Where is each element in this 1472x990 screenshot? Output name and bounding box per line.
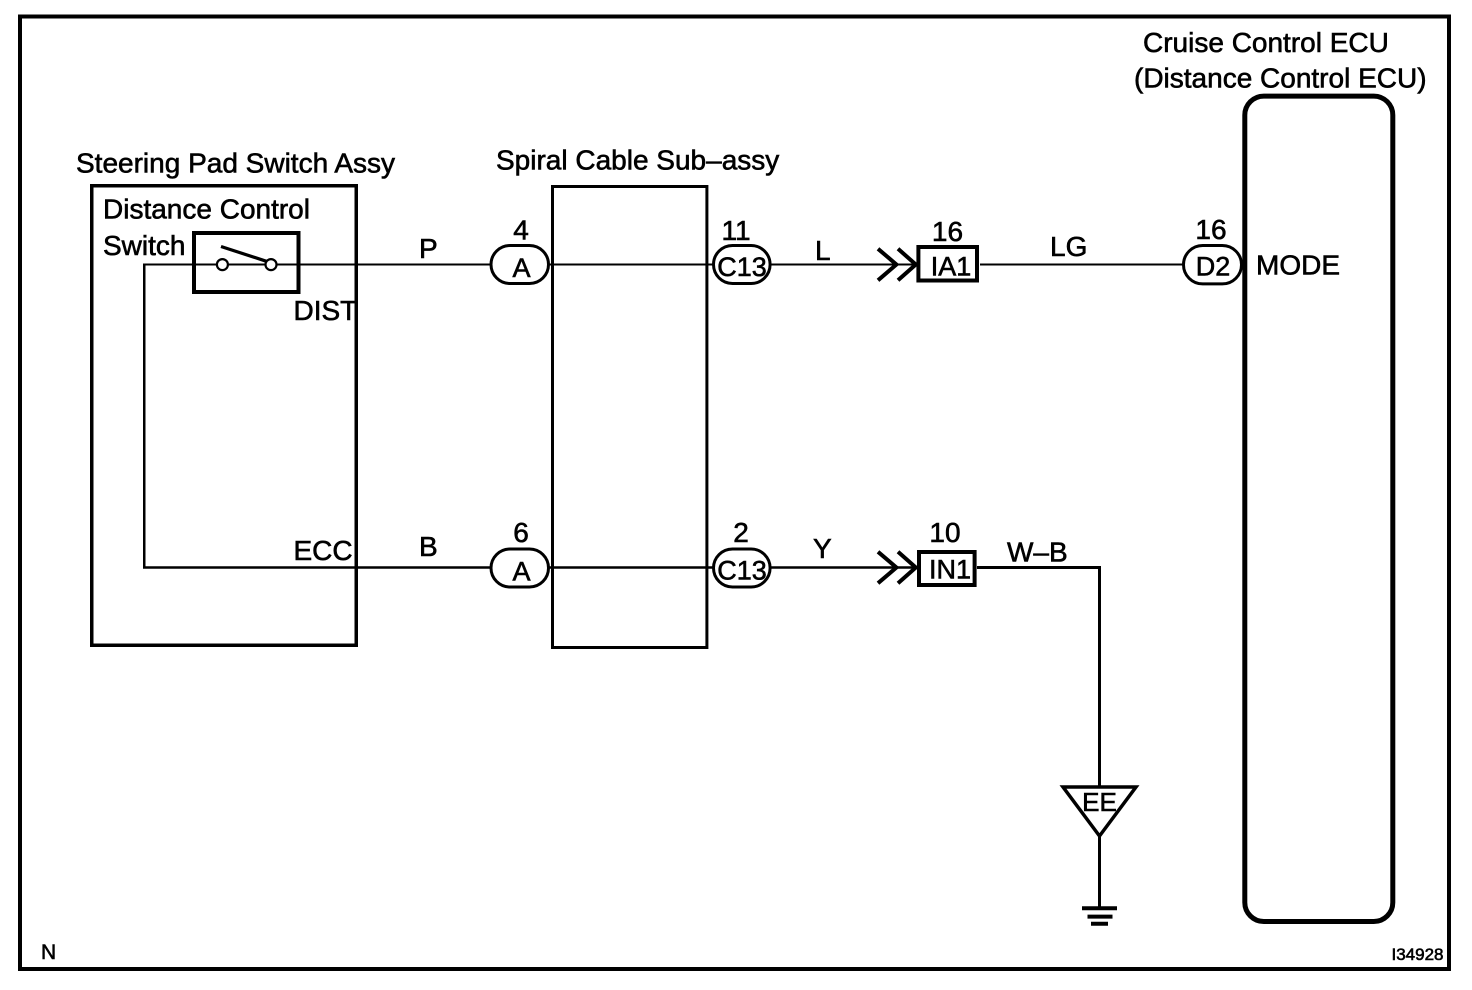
svg-text:C13: C13: [717, 252, 767, 282]
svg-text:A: A: [512, 557, 530, 587]
junction block IN1: [919, 552, 975, 585]
svg-text:N: N: [41, 941, 56, 964]
svg-text:Spiral Cable Sub–assy: Spiral Cable Sub–assy: [496, 145, 779, 176]
svg-text:Distance Control: Distance Control: [103, 194, 310, 225]
svg-text:EE: EE: [1082, 787, 1117, 817]
svg-text:(Distance Control ECU): (Distance Control ECU): [1134, 63, 1427, 94]
Distance Control Switch box: [194, 233, 299, 292]
svg-text:IN1: IN1: [929, 555, 971, 585]
junction block IA1: [918, 247, 977, 281]
svg-text:B: B: [419, 531, 438, 562]
wire P upper horizontal: [144, 264, 920, 266]
ground symbol bar 1: [1082, 906, 1117, 910]
svg-text:4: 4: [513, 215, 529, 246]
svg-text:10: 10: [929, 517, 960, 548]
wire ECC branch vertical and lower horizontal: [144, 264, 919, 568]
chevron arrows lower wire: [878, 552, 896, 583]
Steering Pad Switch Assy box: [92, 186, 357, 646]
switch lever: [221, 247, 267, 262]
svg-text:Cruise Control ECU: Cruise Control ECU: [1143, 27, 1389, 58]
svg-text:LG: LG: [1050, 231, 1087, 262]
svg-text:ECC: ECC: [294, 535, 353, 566]
chevron arrows upper wire: [878, 249, 896, 280]
switch contact left: [217, 259, 228, 270]
wire from EE triangle apex to ground: [1098, 837, 1101, 907]
ground point EE triangle: [1063, 787, 1136, 836]
connector A pin 4 oval: [491, 246, 549, 284]
svg-text:16: 16: [1195, 214, 1226, 245]
svg-text:A: A: [512, 253, 530, 283]
svg-text:I34928: I34928: [1392, 945, 1444, 964]
svg-text:DIST: DIST: [294, 295, 358, 326]
svg-text:C13: C13: [717, 556, 767, 586]
wire W-B from IN1 down to EE triangle: [977, 568, 1100, 787]
svg-text:MODE: MODE: [1256, 250, 1340, 281]
ground symbol bar 2: [1088, 915, 1113, 919]
wire LG from IA1 to D2: [980, 264, 1184, 266]
connector C13 pin 2 oval: [714, 549, 771, 587]
connector D2 pin 16 oval: [1184, 246, 1242, 284]
switch contact right: [266, 259, 277, 270]
Spiral Cable Sub-assy box: [553, 187, 707, 648]
svg-text:2: 2: [733, 517, 749, 548]
svg-text:D2: D2: [1196, 252, 1231, 282]
ground symbol bar 3: [1091, 922, 1108, 926]
svg-text:11: 11: [721, 215, 750, 246]
svg-text:P: P: [419, 233, 438, 264]
svg-text:6: 6: [513, 517, 529, 548]
Cruise Control ECU box: [1245, 96, 1393, 921]
connector A pin 6 oval: [491, 549, 549, 587]
svg-text:W–B: W–B: [1007, 537, 1068, 568]
connector C13 pin 11 oval: [714, 246, 771, 284]
svg-text:IA1: IA1: [931, 252, 972, 282]
svg-text:Steering Pad Switch Assy: Steering Pad Switch Assy: [76, 148, 395, 179]
svg-text:16: 16: [932, 216, 963, 247]
svg-text:Switch: Switch: [103, 230, 185, 261]
svg-text:L: L: [815, 235, 831, 266]
svg-text:Y: Y: [813, 533, 832, 564]
